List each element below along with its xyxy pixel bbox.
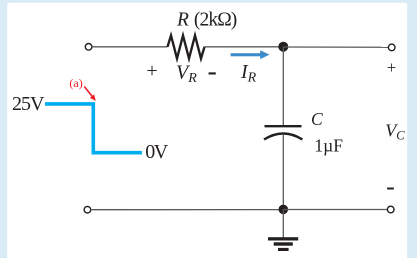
svg-text:C: C bbox=[311, 109, 323, 129]
terminal (open circle) top-left bbox=[85, 44, 92, 51]
capacitor C top plate bbox=[265, 125, 302, 127]
wire: resistor to top junction bbox=[205, 46, 284, 48]
wire: top junction down to capacitor bbox=[282, 47, 284, 125]
svg-text:R(2kΩ): R(2kΩ) bbox=[176, 9, 237, 30]
svg-text:25V: 25V bbox=[12, 93, 45, 115]
wire: ground stub bbox=[282, 210, 284, 238]
wire: junction to top-right terminal bbox=[283, 46, 388, 48]
step waveform (blue): 25V level, falling edge, 0V level bbox=[45, 104, 142, 153]
svg-text:(a): (a) bbox=[69, 76, 82, 90]
svg-text:-: - bbox=[208, 56, 217, 87]
svg-text:+: + bbox=[146, 60, 157, 82]
svg-text:+: + bbox=[387, 58, 397, 77]
node: bottom junction dot bbox=[279, 205, 289, 215]
wire: top-left terminal to resistor bbox=[92, 46, 168, 48]
wire: bottom junction to bottom-right terminal bbox=[283, 209, 387, 211]
terminal (open circle) bottom-left bbox=[84, 206, 91, 213]
node: top junction dot bbox=[278, 42, 288, 52]
terminal (open circle) top-right bbox=[388, 44, 395, 51]
resistor R bbox=[168, 36, 205, 59]
terminal (open circle) bottom-right bbox=[387, 206, 394, 213]
wire: bottom-left terminal to bottom junction bbox=[91, 209, 284, 211]
svg-text:0V: 0V bbox=[145, 141, 169, 163]
current arrow I_R (blue) bbox=[231, 50, 270, 59]
svg-text:1µF: 1µF bbox=[314, 136, 343, 156]
svg-text:-: - bbox=[386, 172, 395, 201]
wire: capacitor down to bottom junction bbox=[282, 135, 284, 210]
ground symbol bbox=[268, 237, 298, 251]
capacitor C bottom plate (curved) bbox=[264, 134, 302, 140]
red annotation arrow bbox=[84, 87, 96, 101]
